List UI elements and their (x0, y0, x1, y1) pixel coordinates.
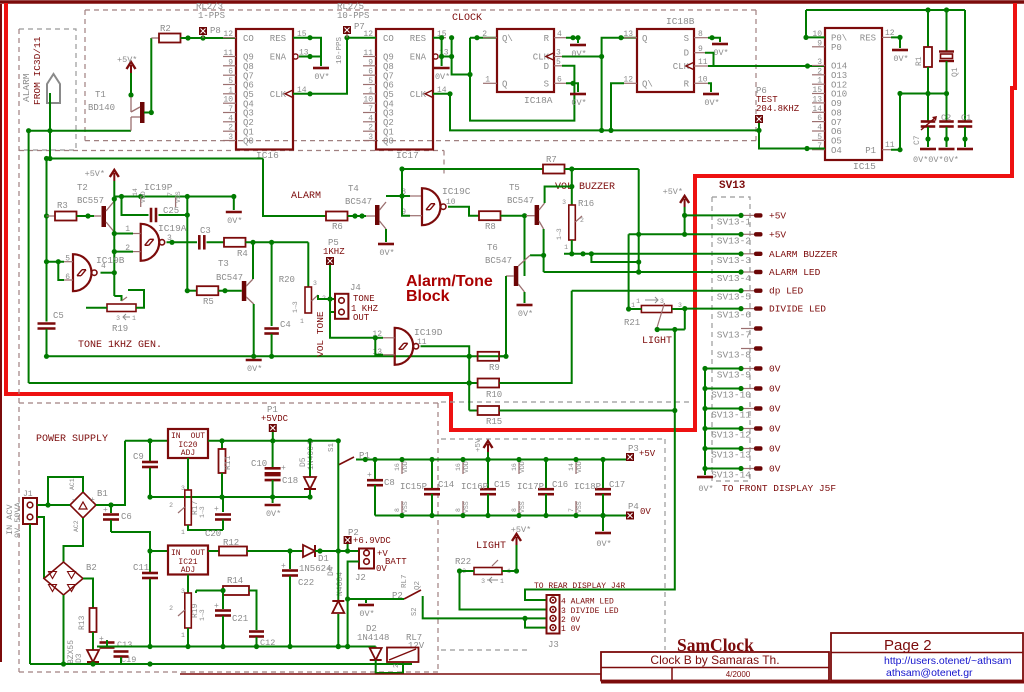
svg-text:R15: R15 (486, 417, 502, 427)
dashed decoupling region (441, 438, 665, 440)
svg-text:ALARM LED: ALARM LED (769, 267, 821, 278)
svg-text:TONE: TONE (353, 294, 375, 304)
connector pin SV13-12 (741, 428, 754, 430)
svg-text:0V*: 0V* (314, 72, 329, 82)
svg-text:11: 11 (223, 49, 233, 58)
wire IC18B clk to IC15 (708, 65, 825, 67)
svg-text:Block: Block (406, 288, 450, 305)
svg-text:DIVIDE LED: DIVIDE LED (769, 304, 826, 315)
svg-text:1→3: 1→3 (292, 301, 299, 313)
svg-text:3: 3 (116, 315, 120, 322)
wire D1 to J2/P2 (315, 550, 359, 552)
flip-flop IC18B body (637, 29, 694, 92)
svg-text:0V*: 0V* (266, 509, 281, 519)
svg-text:J3: J3 (548, 640, 559, 650)
svg-text:VDD: VDD (576, 461, 583, 473)
wire T3 emitter to ground (253, 304, 255, 356)
svg-text:12V: 12V (408, 641, 425, 651)
wire top rail to IC15 pin10 (806, 10, 825, 37)
wire R16 top from R7 net (571, 169, 573, 187)
svg-text:Q0: Q0 (383, 137, 394, 147)
svg-text:R10: R10 (486, 390, 502, 400)
svg-text:SV13-14: SV13-14 (711, 470, 751, 481)
svg-text:P3: P3 (628, 444, 639, 454)
svg-text:-: - (71, 496, 76, 505)
svg-text:P2: P2 (392, 591, 403, 601)
svg-text:POWER SUPPLY: POWER SUPPLY (36, 434, 108, 445)
wire R20 wiper to J4 (318, 295, 330, 299)
svg-text:SV13-4: SV13-4 (717, 273, 752, 284)
svg-text:VSS: VSS (175, 191, 182, 203)
svg-text:CLK: CLK (410, 90, 427, 100)
svg-text:VSS: VSS (519, 501, 526, 513)
svg-text:+: + (281, 562, 286, 571)
svg-text:C4: C4 (280, 320, 291, 330)
svg-text:2: 2 (482, 30, 487, 39)
svg-text:VSS: VSS (463, 501, 470, 513)
regulator IC21 (168, 546, 208, 575)
connector pin SV13-14 (741, 468, 754, 470)
svg-text:1: 1 (631, 302, 635, 309)
wire R7 to +5 bus (565, 168, 639, 170)
svg-text:1: 1 (500, 578, 504, 585)
capacitor C15 (487, 460, 489, 489)
wire IC15 pin11 to osc (891, 94, 947, 150)
svg-text:3: 3 (562, 199, 566, 206)
svg-text:IC16P: IC16P (461, 482, 488, 492)
wire +5V to T2/VDD (113, 181, 115, 296)
dashed box clock region (85, 9, 756, 11)
svg-text:0V: 0V (769, 464, 781, 475)
wire IC18B pin8 ground (708, 38, 720, 42)
ground power 0V (272, 497, 274, 503)
svg-text:3 DIVIDE LED: 3 DIVIDE LED (561, 607, 619, 616)
wire T6 base from R9 (505, 276, 507, 356)
wire T6 collector (530, 254, 544, 256)
+5V symbol T1 (130, 65, 132, 73)
svg-text:BD140: BD140 (88, 103, 115, 113)
svg-text:C15: C15 (494, 480, 510, 490)
svg-text:J4: J4 (350, 283, 361, 293)
svg-text:14: 14 (568, 463, 575, 471)
svg-text:SV13-10: SV13-10 (711, 390, 751, 401)
svg-text:1: 1 (181, 529, 185, 536)
wire R21 wiper row (657, 329, 685, 331)
svg-text:T1: T1 (95, 90, 106, 100)
svg-text:Q: Q (502, 80, 507, 90)
wire R16 bottom row (571, 240, 573, 254)
svg-text:LIGHT: LIGHT (476, 541, 506, 552)
svg-text:14: 14 (132, 188, 139, 196)
wire IC18B pin9 to clk (705, 53, 714, 66)
svg-text:0V: 0V (769, 384, 781, 395)
wire B1 out to C6 and IC20 (96, 441, 125, 505)
sheet frame left border (0, 4, 2, 662)
ground IC17 ena (434, 67, 450, 70)
svg-text:0V: 0V (769, 404, 781, 415)
svg-text:RES: RES (860, 34, 876, 44)
svg-text:10: 10 (446, 198, 456, 207)
svg-text:P8: P8 (210, 26, 221, 36)
svg-text:3: 3 (228, 133, 233, 142)
power pin IC17P VDD (518, 460, 520, 475)
svg-text:athsam@otenet.gr: athsam@otenet.gr (886, 667, 973, 679)
resistor R1 (927, 10, 929, 47)
wire IC20 input rail (125, 440, 168, 442)
svg-text:C21: C21 (232, 614, 248, 624)
svg-text:T5: T5 (509, 183, 520, 193)
svg-text:3: 3 (660, 298, 664, 305)
crystal Q1 (946, 10, 948, 51)
wire IC18A clk loop (562, 57, 602, 131)
svg-text:+5V*: +5V* (85, 169, 105, 179)
svg-text:http://users.otenet/~athsam: http://users.otenet/~athsam (884, 655, 1012, 667)
svg-text:C8: C8 (384, 478, 395, 488)
svg-text:OUT: OUT (353, 313, 370, 323)
wire rail2 (29, 382, 478, 384)
svg-text:TO REAR DISPLAY J4R: TO REAR DISPLAY J4R (534, 582, 625, 591)
svg-text:7: 7 (817, 142, 822, 151)
wire C1 from rail (964, 10, 966, 122)
power pin VSS (462, 501, 464, 516)
svg-text:0V*: 0V* (893, 54, 908, 64)
svg-text:0V*: 0V* (435, 72, 450, 82)
+5V symbol light (516, 537, 518, 545)
svg-text:0V*: 0V* (518, 309, 533, 319)
svg-text:VOL TONE: VOL TONE (315, 311, 326, 357)
wire VDD rail (114, 196, 234, 198)
wire dp LED row (572, 290, 741, 292)
svg-text:1→3: 1→3 (199, 506, 206, 518)
svg-text:R4: R4 (237, 249, 248, 259)
svg-text:S: S (544, 80, 549, 90)
resistor R12 (219, 547, 247, 556)
svg-text:SV13-11: SV13-11 (711, 410, 751, 421)
svg-text:IC18P: IC18P (574, 482, 601, 492)
svg-text:1 0V: 1 0V (561, 625, 580, 634)
wire IC18A pin4 ground (566, 38, 578, 43)
svg-text:D3: D3 (75, 653, 84, 663)
wire T5 emitter chain (543, 229, 545, 272)
svg-text:4: 4 (557, 30, 562, 39)
wire IC19A pin2 (114, 251, 133, 253)
svg-text:0V: 0V (769, 444, 781, 455)
svg-text:0V: 0V (640, 507, 651, 517)
wire mid rail to IC21 (111, 532, 168, 551)
svg-text:+5V*: +5V* (511, 525, 531, 535)
svg-text:C16: C16 (552, 480, 568, 490)
wire IC16 pin15/13 to ground (293, 38, 321, 66)
connector pin SV13-10 (741, 388, 754, 390)
svg-text:9V 50VA: 9V 50VA (13, 501, 23, 538)
wire IC16 pin14 clock from P7 (293, 38, 376, 94)
svg-text:9: 9 (368, 58, 373, 67)
svg-text:IN: IN (171, 549, 181, 558)
svg-text:SV13-7: SV13-7 (717, 330, 751, 341)
svg-text:16: 16 (394, 463, 401, 471)
svg-text:1: 1 (228, 86, 233, 95)
svg-text:0V*: 0V* (704, 98, 719, 108)
svg-text:0V*: 0V* (571, 49, 586, 59)
svg-text:R: R (684, 80, 690, 90)
svg-text:+5VDC: +5VDC (261, 414, 289, 424)
svg-text:BC547: BC547 (216, 273, 243, 283)
bridge B1 (70, 492, 96, 518)
svg-text:ALARM: ALARM (21, 73, 32, 102)
wire left vertical tone (46, 159, 48, 322)
svg-text:2: 2 (368, 124, 373, 133)
svg-text:1→3: 1→3 (199, 609, 206, 621)
svg-text:R3: R3 (57, 201, 68, 211)
svg-text:SV13-5: SV13-5 (717, 292, 752, 303)
svg-text:SV13-1: SV13-1 (717, 216, 752, 227)
svg-text:0V*: 0V* (379, 248, 394, 258)
svg-text:1: 1 (125, 225, 130, 234)
wire R4 to T3/R20 (246, 241, 309, 243)
wire R8 to T5 base (501, 215, 527, 217)
svg-text:1: 1 (132, 315, 136, 322)
svg-text:1: 1 (181, 632, 185, 639)
capacitor C16 (545, 460, 547, 489)
svg-text:dp LED: dp LED (769, 286, 804, 297)
svg-text:SV13: SV13 (719, 180, 746, 192)
svg-text:2: 2 (393, 664, 401, 668)
svg-text:10-PPS: 10-PPS (337, 11, 369, 21)
connector pin SV13-11 (741, 408, 754, 410)
svg-text:R22: R22 (455, 557, 471, 567)
wire gate9 from T4 collector (402, 169, 410, 216)
svg-text:7: 7 (568, 508, 575, 512)
svg-text:6: 6 (557, 76, 562, 85)
svg-text:14: 14 (812, 105, 822, 114)
wire P6 to IC15 pin7 (759, 123, 825, 149)
connector J4 TONE 1KHZ OUT (335, 294, 348, 319)
connector pin SV13-4 (741, 271, 754, 273)
title block left box (601, 652, 829, 681)
wire IC19C out to R8 (448, 207, 479, 216)
svg-text:IC19D: IC19D (414, 327, 443, 338)
power pin VSS (518, 501, 520, 516)
svg-text:Q1: Q1 (951, 67, 960, 77)
svg-text:3: 3 (481, 578, 485, 585)
svg-text:B2: B2 (86, 563, 97, 573)
wire 0V row power (150, 496, 310, 498)
connector pin SV13-6 (741, 308, 754, 310)
svg-text:8: 8 (511, 508, 518, 512)
ground T3 emitter (246, 359, 262, 362)
svg-text:Q: Q (642, 34, 647, 44)
connector pin SV13-9 (741, 368, 754, 370)
svg-text:C17: C17 (609, 480, 625, 490)
wire VSS to ground (233, 197, 235, 211)
svg-text:C22: C22 (298, 578, 314, 588)
svg-text:C2: C2 (941, 113, 951, 123)
svg-text:IC19C: IC19C (442, 186, 471, 197)
svg-text:+5V: +5V (769, 210, 786, 221)
svg-text:Q\: Q\ (642, 80, 653, 90)
wire IC19D output (421, 346, 470, 410)
svg-text:11: 11 (885, 141, 895, 150)
resistor R10 (478, 379, 500, 388)
svg-text:VDD: VDD (402, 461, 409, 473)
svg-text:P7: P7 (354, 22, 365, 32)
svg-text:D: D (684, 49, 689, 59)
ground osc caps (920, 148, 936, 151)
svg-text:C11: C11 (133, 563, 149, 573)
power pin IC16P VDD (462, 460, 464, 475)
wire J3 pin1 tie (525, 618, 547, 627)
resistor R15 (469, 410, 477, 412)
wire IC18B pin10 ground (708, 83, 711, 92)
svg-text:VDD: VDD (140, 191, 147, 203)
svg-text:+5V*: +5V* (663, 187, 683, 197)
wire R2 to IC16 pin12 (181, 37, 237, 39)
wire B2 right to R13 (83, 579, 93, 609)
svg-text:1-PPS: 1-PPS (198, 11, 225, 21)
svg-text:S1: S1 (328, 442, 336, 452)
svg-text:5: 5 (228, 77, 233, 86)
resistor R8 (479, 211, 501, 220)
svg-text:BC547: BC547 (485, 256, 512, 266)
svg-text:+5V: +5V (769, 229, 786, 240)
wire alarm led row (544, 271, 741, 273)
power pin IC15P VDD (401, 460, 403, 475)
svg-text:7: 7 (228, 105, 233, 114)
svg-text:3: 3 (556, 49, 561, 58)
svg-text:6: 6 (817, 114, 822, 123)
svg-text:T3: T3 (218, 259, 229, 269)
svg-text:ENA: ENA (410, 53, 427, 63)
svg-text:LIGHT: LIGHT (642, 336, 672, 347)
wire alarm led to J3 (525, 411, 675, 601)
svg-text:C18: C18 (282, 476, 298, 486)
svg-text:1: 1 (636, 298, 640, 305)
regulator IC20 (168, 429, 208, 458)
resistor R4 (207, 241, 225, 243)
svg-text:IC19P: IC19P (144, 182, 173, 193)
+5V symbol decoupling (487, 444, 489, 452)
svg-text:7: 7 (167, 192, 174, 196)
wire P5 to J4 (330, 265, 335, 312)
svg-text:SV13-13: SV13-13 (711, 450, 751, 461)
wire feedback to R19 wiper (114, 296, 121, 301)
svg-text:T6: T6 (487, 243, 498, 253)
svg-text:+: + (99, 635, 104, 644)
svg-text:R13: R13 (78, 615, 87, 630)
svg-text:OUT: OUT (191, 432, 206, 441)
svg-text:R19: R19 (112, 324, 128, 334)
ground IC16 ena (313, 67, 329, 70)
IC IC16 counter body (236, 29, 293, 150)
svg-text:R11: R11 (224, 455, 233, 470)
svg-text:D: D (544, 62, 549, 72)
wire S1 to decoupling rail (356, 459, 627, 461)
wire C25 right to R5 branch (186, 197, 188, 291)
svg-text:+: + (90, 496, 95, 505)
svg-text:SV13-2: SV13-2 (717, 235, 752, 246)
svg-text:RL7: RL7 (401, 574, 409, 588)
svg-text:2: 2 (169, 502, 173, 509)
svg-text:R2: R2 (160, 24, 171, 34)
svg-text:11: 11 (363, 49, 373, 58)
svg-text:TO FRONT DISPLAY J5F: TO FRONT DISPLAY J5F (722, 483, 836, 494)
wire J2 0V down (348, 562, 359, 647)
wire oscillator top rail (806, 9, 965, 11)
svg-text:Q2: Q2 (414, 581, 422, 590)
svg-text:IC18B: IC18B (666, 16, 695, 27)
svg-text:13: 13 (812, 95, 822, 104)
svg-text:SV13-12: SV13-12 (711, 430, 751, 441)
wire SV13-2 row (629, 233, 741, 235)
svg-text:0V: 0V (769, 364, 781, 375)
svg-text:0V*0V*0V*: 0V*0V*0V* (913, 155, 959, 165)
svg-text:12: 12 (623, 76, 633, 85)
svg-text:R: R (544, 34, 550, 44)
wire B2 bottom to rail (63, 595, 65, 664)
svg-text:CO: CO (383, 34, 394, 44)
svg-text:CO: CO (243, 34, 254, 44)
wire R16 bottom jog (591, 254, 638, 262)
svg-text:0V*: 0V* (571, 98, 586, 108)
svg-text:7: 7 (368, 105, 373, 114)
wire T5 base to T6 base (524, 216, 526, 276)
wire T3 collector (252, 242, 254, 279)
title block right box (831, 633, 1023, 681)
net highlight red polyline (6, 3, 1015, 430)
svg-text:D1: D1 (318, 554, 329, 564)
svg-text:C9: C9 (133, 452, 144, 462)
svg-text:OUT: OUT (191, 549, 206, 558)
svg-text:ALARM: ALARM (291, 191, 321, 202)
dashed SV13 connector box (712, 197, 750, 481)
power pin VSS (401, 501, 403, 516)
svg-text:O4: O4 (831, 146, 842, 156)
svg-text:1N4148: 1N4148 (357, 633, 389, 643)
title block bottom line (601, 681, 1024, 684)
svg-text:BC547: BC547 (507, 196, 534, 206)
svg-text:2: 2 (817, 67, 822, 76)
wire +5V to SV13 rows (684, 207, 686, 234)
svg-text:VDD: VDD (463, 461, 470, 473)
svg-text:Clock B by Samaras Th.: Clock B by Samaras Th. (650, 653, 779, 667)
svg-text:T2: T2 (77, 183, 88, 193)
svg-text:+: + (281, 464, 286, 473)
wires osc caps to ground (927, 127, 929, 147)
connector J2 BATT (359, 549, 374, 569)
wire R12 to D1 (247, 550, 303, 552)
svg-text:IC15: IC15 (853, 161, 876, 172)
svg-text:P4: P4 (628, 502, 639, 512)
svg-text:R21: R21 (624, 318, 640, 328)
svg-text:2: 2 (125, 244, 130, 253)
svg-text:+: + (367, 471, 372, 480)
svg-text:5: 5 (368, 77, 373, 86)
power pin VSS (575, 501, 577, 516)
capacitor C2 (939, 120, 954, 123)
wire bottom rail power (30, 663, 412, 665)
svg-text:VSS: VSS (402, 501, 409, 513)
svg-text:IC17: IC17 (396, 150, 419, 161)
svg-text:6: 6 (228, 68, 233, 77)
svg-text:3: 3 (678, 302, 682, 309)
wire IC17 pin15/13 to ground (433, 38, 442, 66)
wire IC20 out rail (208, 440, 338, 442)
sheet frame top border (0, 0, 1024, 4)
svg-text:T4: T4 (348, 184, 359, 194)
svg-text:0V: 0V (376, 564, 387, 574)
dashed left region border (18, 29, 20, 672)
svg-text:C1: C1 (961, 113, 971, 123)
